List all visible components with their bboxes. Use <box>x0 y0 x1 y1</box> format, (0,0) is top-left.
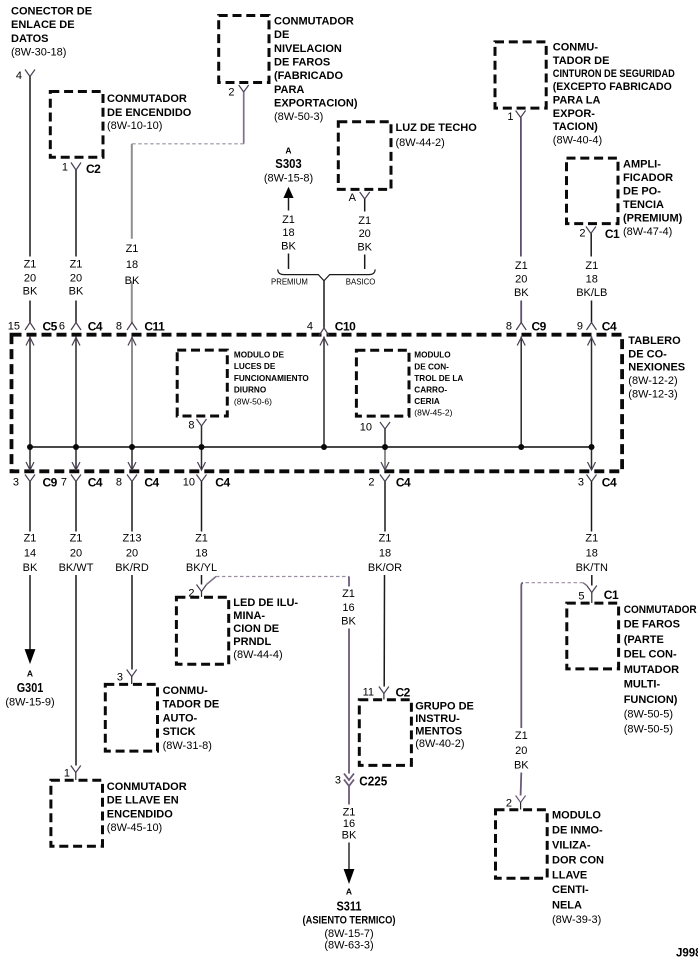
wire Z13 20 BK/RD from C4-8 to autostick switch <box>115 482 149 670</box>
node: premium/basico brace merge to C10 pin 4 <box>271 269 375 328</box>
svg-text:18: 18 <box>586 547 598 559</box>
wire: dashed branch from PRNDL led pin 2 to C225 column <box>207 577 357 774</box>
svg-text:C4: C4 <box>88 319 103 333</box>
svg-text:CARRO-: CARRO- <box>414 386 447 395</box>
svg-text:BK/LB: BK/LB <box>576 287 607 299</box>
svg-text:EXPORTACION): EXPORTACION) <box>274 98 358 110</box>
svg-text:BK: BK <box>342 830 357 842</box>
svg-text:TACION): TACION) <box>553 121 598 133</box>
svg-text:DATOS: DATOS <box>11 33 49 45</box>
svg-text:CINTURON DE SEGURIDAD: CINTURON DE SEGURIDAD <box>553 68 675 80</box>
svg-text:BK: BK <box>125 275 140 287</box>
svg-text:DE CO-: DE CO- <box>628 348 667 360</box>
svg-text:TENCIA: TENCIA <box>623 199 664 211</box>
svg-text:Z1: Z1 <box>24 533 37 545</box>
component: AMPLIFICADOR DE POTENCIA (dashed box) <box>567 158 683 238</box>
svg-text:Z1: Z1 <box>585 260 598 272</box>
svg-text:DE: DE <box>274 29 289 41</box>
svg-text:(8W-15-8): (8W-15-8) <box>264 173 313 185</box>
svg-text:4: 4 <box>307 320 313 332</box>
svg-text:DE PO-: DE PO- <box>623 186 661 198</box>
svg-text:16: 16 <box>342 602 354 614</box>
connector C4 pin 7 (bottom row) <box>61 475 103 490</box>
svg-text:ENCENDIDO: ENCENDIDO <box>107 808 173 820</box>
component: TABLERO DE CONEXIONES (junction block, large dashed box) <box>12 335 686 472</box>
svg-text:20: 20 <box>515 745 527 757</box>
pin A of dome lamp <box>349 192 370 204</box>
wire Z1 20 BK/WT from C4-7 to key-in switch <box>59 482 94 766</box>
svg-text:BASICO: BASICO <box>346 278 375 287</box>
svg-text:15: 15 <box>8 320 20 332</box>
pin 1 of seat belt switch <box>507 111 525 124</box>
svg-text:Z1: Z1 <box>343 806 356 818</box>
svg-text:(EXCEPTO FABRICADO: (EXCEPTO FABRICADO <box>553 81 672 93</box>
svg-text:2: 2 <box>228 87 234 99</box>
svg-text:CION DE: CION DE <box>233 623 279 635</box>
component: MODULO DE LUCES DE FUNCIONAMIENTO DIURNO (dashed box inside junction block) <box>177 350 309 416</box>
svg-text:1: 1 <box>62 162 68 174</box>
svg-text:Z1: Z1 <box>70 533 83 545</box>
svg-text:BK/OR: BK/OR <box>368 562 402 574</box>
svg-text:BK/RD: BK/RD <box>115 562 149 574</box>
svg-text:8: 8 <box>116 477 122 489</box>
svg-text:Z1: Z1 <box>585 533 598 545</box>
svg-text:C9: C9 <box>43 476 58 490</box>
svg-text:Z1: Z1 <box>126 243 139 255</box>
svg-text:2: 2 <box>368 477 374 489</box>
svg-text:DIURNO: DIURNO <box>234 386 267 395</box>
svg-text:CONMUTADOR: CONMUTADOR <box>624 604 697 616</box>
svg-text:LED DE ILU-: LED DE ILU- <box>233 597 298 609</box>
svg-text:CENTI-: CENTI- <box>552 884 589 896</box>
connector C1 pin 5 of headlamp switch <box>578 586 619 604</box>
svg-text:(8W-15-7): (8W-15-7) <box>324 928 373 940</box>
svg-text:Z13: Z13 <box>123 533 142 545</box>
svg-text:(PREMIUM): (PREMIUM) <box>623 212 683 224</box>
svg-text:MODULO: MODULO <box>414 351 451 360</box>
svg-text:1: 1 <box>507 111 513 123</box>
svg-text:10: 10 <box>183 477 195 489</box>
svg-text:TROL DE LA: TROL DE LA <box>414 374 463 383</box>
component: LUZ DE TECHO (dashed box) <box>338 122 477 190</box>
svg-text:BK: BK <box>23 286 38 298</box>
connector C4 pin 9 (top row) <box>577 319 617 333</box>
svg-text:A: A <box>349 192 357 204</box>
svg-text:(8W-45-10): (8W-45-10) <box>107 822 162 834</box>
component: LED DE ILUMINACION DE PRNDL (dashed box) <box>176 597 298 665</box>
svg-text:C4: C4 <box>144 476 159 490</box>
svg-text:20: 20 <box>24 272 36 284</box>
svg-text:10: 10 <box>360 422 372 434</box>
connector C2 pin 1 of ignition switch <box>62 162 101 177</box>
svg-text:C11: C11 <box>144 319 165 333</box>
svg-text:5: 5 <box>578 591 584 603</box>
wire Z1 18 BK/YL from C4-10 to PRNDL led <box>186 482 217 585</box>
svg-text:6: 6 <box>59 320 65 332</box>
svg-text:C225: C225 <box>359 774 387 789</box>
component: CONMUTADOR DE FAROS (dashed box) <box>567 603 697 736</box>
svg-text:CONMU-: CONMU- <box>163 685 209 697</box>
svg-text:(8W-45-2): (8W-45-2) <box>414 408 452 418</box>
svg-text:C1: C1 <box>604 588 619 602</box>
node: splice S311 (asiento termico) <box>303 887 396 952</box>
svg-text:DOR CON: DOR CON <box>552 854 604 866</box>
svg-text:(FABRICADO: (FABRICADO <box>274 70 343 82</box>
svg-text:DE FAROS: DE FAROS <box>624 619 680 631</box>
connector C9 pin 8 (top row) <box>506 319 547 333</box>
svg-text:MODULO: MODULO <box>552 810 601 822</box>
svg-text:20: 20 <box>126 547 138 559</box>
svg-text:PARA LA: PARA LA <box>553 95 601 107</box>
node: splice S303 <box>264 146 313 185</box>
wire Z1 14 BK from C9-3 to ground G301 <box>23 482 38 663</box>
svg-text:GRUPO DE: GRUPO DE <box>415 701 474 713</box>
svg-text:A: A <box>27 669 33 679</box>
component: MODULO DE INMOVILIZADOR CON LLAVE CENTINELA (dashed box) <box>496 810 605 927</box>
svg-text:BK: BK <box>341 616 356 628</box>
svg-text:S311: S311 <box>337 899 362 914</box>
svg-text:CONMUTADOR: CONMUTADOR <box>107 781 187 793</box>
svg-text:(8W-50-6): (8W-50-6) <box>234 397 272 407</box>
svg-text:LLAVE: LLAVE <box>552 869 587 881</box>
svg-text:18: 18 <box>586 273 598 285</box>
connector C9 pin 3 (bottom row) <box>13 475 58 490</box>
svg-text:PRNDL: PRNDL <box>233 636 271 648</box>
connector C1 pin 2 of power amplifier <box>579 227 620 242</box>
svg-text:CONECTOR DE: CONECTOR DE <box>11 5 92 17</box>
svg-text:ENLACE DE: ENLACE DE <box>11 19 75 31</box>
svg-text:2: 2 <box>506 798 512 810</box>
svg-text:PREMIUM: PREMIUM <box>271 278 308 287</box>
component: GRUPO DE INSTRUMENTOS (dashed box) <box>359 700 474 766</box>
svg-text:CONMU-: CONMU- <box>553 42 599 54</box>
svg-text:3: 3 <box>335 775 341 787</box>
component: CONMUTADOR DE CINTURON DE SEGURIDAD (dashed box) <box>495 42 675 147</box>
node: CONECTOR DE ENLACE DE DATOS label <box>11 5 92 58</box>
svg-text:(8W-31-8): (8W-31-8) <box>163 740 212 752</box>
svg-text:(8W-50-5): (8W-50-5) <box>624 724 673 736</box>
svg-text:BK/TN: BK/TN <box>576 562 608 574</box>
connector C4 pin 6 (top row) <box>59 319 103 333</box>
svg-text:G301: G301 <box>17 680 44 695</box>
pin 4 of data link connector <box>16 70 35 83</box>
in-line connector C225 pin 3 <box>335 774 387 789</box>
svg-text:20: 20 <box>515 273 527 285</box>
svg-text:18: 18 <box>126 259 138 271</box>
svg-text:DEL CON-: DEL CON- <box>624 649 677 661</box>
svg-text:18: 18 <box>195 547 207 559</box>
svg-text:Z1: Z1 <box>24 259 37 271</box>
wire Z1 18 BK from leveling switch (gray) to C11 pin 8 <box>125 92 244 323</box>
pin 10 of body control module <box>360 422 390 434</box>
svg-text:3: 3 <box>117 672 123 684</box>
connector C2 pin 11 of instrument cluster <box>363 686 411 700</box>
svg-text:C4: C4 <box>396 476 411 490</box>
svg-text:FUNCION): FUNCION) <box>624 694 678 706</box>
svg-text:MULTI-: MULTI- <box>624 679 661 691</box>
svg-text:C4: C4 <box>602 319 617 333</box>
connector C11 pin 8 (top row) <box>116 319 165 333</box>
wire Z1 20 BK (violet) from seat belt switch to C9 pin 8 <box>514 118 529 323</box>
svg-text:PARA: PARA <box>274 84 304 96</box>
svg-text:18: 18 <box>282 227 294 239</box>
wire Z1 20 BK basico branch from dome lamp <box>357 199 372 269</box>
svg-text:C4: C4 <box>88 476 103 490</box>
svg-text:NEXIONES: NEXIONES <box>628 362 685 374</box>
svg-text:DE INMO-: DE INMO- <box>552 824 603 836</box>
connector C4 pin 3 (bottom row) <box>578 475 617 490</box>
svg-text:CONMUTADOR: CONMUTADOR <box>107 93 187 105</box>
svg-text:BK: BK <box>281 240 296 252</box>
svg-text:4: 4 <box>16 70 22 82</box>
svg-text:Z1: Z1 <box>358 215 371 227</box>
connector C10 pin 4 (top row) <box>307 319 356 335</box>
wire: internal column C9-8 to bus <box>517 337 525 447</box>
svg-text:VILIZA-: VILIZA- <box>552 840 591 852</box>
svg-text:C2: C2 <box>86 162 101 176</box>
wire: internal column C4-9 through bus to C4-3 <box>588 337 596 470</box>
svg-text:A: A <box>285 146 291 156</box>
wire: internal column C5-15 to bus <box>26 337 34 470</box>
wire Z1 18 BK premium branch with arrow to S303 <box>281 188 296 269</box>
pin 3 of autostick switch <box>117 670 137 685</box>
connector C5 pin 15 (top row) <box>8 319 58 333</box>
wire Z1 18 BK/LB from power amplifier to C4 pin 9 <box>576 234 607 323</box>
svg-text:S303: S303 <box>275 156 302 171</box>
svg-text:MODULO DE: MODULO DE <box>234 351 285 360</box>
svg-text:(ASIENTO TERMICO): (ASIENTO TERMICO) <box>303 915 396 927</box>
svg-text:(8W-10-10): (8W-10-10) <box>107 120 162 132</box>
svg-text:8: 8 <box>506 320 512 332</box>
svg-text:(8W-63-3): (8W-63-3) <box>324 940 373 952</box>
svg-text:20: 20 <box>359 228 371 240</box>
pin 2 of PRNDL illumination led <box>188 585 206 600</box>
svg-text:TADOR DE: TADOR DE <box>553 55 610 67</box>
wire: internal column C4-6 through bus to C4-7 <box>72 337 80 470</box>
svg-text:Z1: Z1 <box>282 214 295 226</box>
svg-text:DE FAROS: DE FAROS <box>274 57 330 69</box>
wire Z1 18 BK/OR from C4-2 to instrument cluster <box>368 482 402 687</box>
svg-text:FICADOR: FICADOR <box>623 172 673 184</box>
svg-text:Z1: Z1 <box>342 588 355 600</box>
wire: DRL module pin 8 through bus to C4-10 <box>198 426 206 470</box>
wire: dashed branch from headlamp switch pin 5 to immobilizer <box>514 583 587 796</box>
svg-text:BK: BK <box>357 241 372 253</box>
component: CONMUTADOR DE NIVELACION DE FAROS (dashed box) <box>219 16 358 124</box>
svg-text:(8W-40-2): (8W-40-2) <box>415 738 464 750</box>
wire: internal column C11-8 (gray) through bus to C4-8 <box>128 337 136 470</box>
connector C4 pin 2 (bottom row) <box>368 475 411 490</box>
svg-text:BK: BK <box>69 286 84 298</box>
svg-text:18: 18 <box>379 547 391 559</box>
svg-text:3: 3 <box>578 477 584 489</box>
svg-text:8: 8 <box>116 320 122 332</box>
svg-text:INSTRU-: INSTRU- <box>415 713 460 725</box>
connector C4 pin 8 (bottom row) <box>116 475 160 490</box>
svg-text:MINA-: MINA- <box>233 610 265 622</box>
svg-text:(8W-39-3): (8W-39-3) <box>552 914 601 926</box>
svg-text:C5: C5 <box>43 319 58 333</box>
svg-text:AUTO-: AUTO- <box>163 712 198 724</box>
svg-text:11: 11 <box>363 687 374 699</box>
svg-text:(8W-12-3): (8W-12-3) <box>628 389 677 401</box>
svg-text:(PARTE: (PARTE <box>624 634 664 646</box>
svg-text:1: 1 <box>64 768 70 780</box>
svg-text:Z1: Z1 <box>70 259 83 271</box>
svg-text:9: 9 <box>577 320 583 332</box>
svg-text:MUTADOR: MUTADOR <box>624 664 679 676</box>
component: CONMUTADOR DE ENCENDIDO (dashed box) <box>50 92 191 158</box>
svg-text:DE LLAVE EN: DE LLAVE EN <box>107 795 179 807</box>
svg-text:20: 20 <box>70 272 82 284</box>
svg-text:DE CON-: DE CON- <box>414 362 449 371</box>
pin 1 of key-in ignition switch <box>64 766 81 781</box>
pin 2 of immobilizer module <box>506 796 526 810</box>
svg-text:Z1: Z1 <box>515 260 528 272</box>
wire: internal ground bus of junction block <box>30 446 592 448</box>
svg-text:(8W-50-5): (8W-50-5) <box>624 709 673 721</box>
svg-text:MENTOS: MENTOS <box>415 726 462 738</box>
svg-text:STICK: STICK <box>163 726 196 738</box>
svg-text:(8W-50-3): (8W-50-3) <box>274 111 323 123</box>
svg-text:3: 3 <box>13 477 19 489</box>
component: CONMUTADOR DE AUTOSTICK (dashed box) <box>105 684 219 751</box>
svg-text:BK/YL: BK/YL <box>186 562 217 574</box>
svg-text:BK/WT: BK/WT <box>59 562 94 574</box>
svg-text:C4: C4 <box>602 476 617 490</box>
svg-text:BK: BK <box>514 287 529 299</box>
svg-text:16: 16 <box>343 818 355 830</box>
svg-text:CONMUTADOR: CONMUTADOR <box>274 16 354 28</box>
svg-text:C9: C9 <box>532 319 547 333</box>
junction dots on bus <box>27 444 595 450</box>
svg-text:C2: C2 <box>396 686 411 700</box>
svg-text:14: 14 <box>24 547 36 559</box>
svg-text:TADOR DE: TADOR DE <box>163 699 220 711</box>
svg-text:Z1: Z1 <box>379 533 392 545</box>
wire Z1 16 BK from C225 to splice S311 <box>342 786 357 883</box>
svg-text:CERIA: CERIA <box>414 397 440 406</box>
svg-text:AMPLI-: AMPLI- <box>623 159 661 171</box>
svg-text:Z1: Z1 <box>195 533 208 545</box>
svg-text:LUZ DE TECHO: LUZ DE TECHO <box>396 122 478 134</box>
svg-text:(8W-44-4): (8W-44-4) <box>233 649 282 661</box>
component: MODULO DE CONTROL DE LA CARROCERIA (dashed box inside junction block) <box>356 350 463 418</box>
svg-text:C4: C4 <box>215 476 230 490</box>
pin 8 of daytime running lamp module <box>188 419 206 432</box>
svg-text:8: 8 <box>188 420 194 432</box>
svg-text:BK: BK <box>514 760 529 772</box>
svg-text:BK: BK <box>23 562 38 574</box>
svg-text:LUCES DE: LUCES DE <box>234 362 276 371</box>
wire Z1 20 BK from data link connector to C5 pin 15 <box>23 77 38 323</box>
svg-text:2: 2 <box>579 228 585 240</box>
svg-text:DE ENCENDIDO: DE ENCENDIDO <box>107 107 192 119</box>
svg-text:(8W-44-2): (8W-44-2) <box>396 137 445 149</box>
wire: BCM pin 10 through bus to C4-2 <box>381 429 389 470</box>
svg-text:20: 20 <box>70 547 82 559</box>
svg-text:TABLERO: TABLERO <box>628 335 681 347</box>
svg-text:Z1: Z1 <box>515 730 528 742</box>
connector C4 pin 10 (bottom row) <box>183 475 231 490</box>
svg-text:EXPOR-: EXPOR- <box>553 108 596 120</box>
svg-text:(8W-47-4): (8W-47-4) <box>623 226 672 238</box>
svg-text:C10: C10 <box>335 319 356 333</box>
svg-text:NIVELACION: NIVELACION <box>274 43 342 55</box>
component: CONMUTADOR DE LLAVE EN ENCENDIDO (dashed box) <box>51 780 187 846</box>
svg-text:(8W-12-2): (8W-12-2) <box>628 375 677 387</box>
svg-text:A: A <box>346 887 352 897</box>
svg-text:NELA: NELA <box>552 899 582 911</box>
wire Z1 18 BK/TN from C4-3 to headlamp switch <box>576 482 608 586</box>
svg-text:7: 7 <box>61 477 67 489</box>
svg-text:(8W-15-9): (8W-15-9) <box>5 697 54 709</box>
svg-text:(8W-40-4): (8W-40-4) <box>553 134 602 146</box>
pin 2 of headlamp leveling switch <box>228 85 248 99</box>
svg-text:C1: C1 <box>605 227 620 241</box>
ground G301 <box>5 669 54 709</box>
svg-text:FUNCIONAMIENTO: FUNCIONAMIENTO <box>234 374 310 383</box>
wire: internal column C10-4 to bus <box>320 337 328 447</box>
svg-text:(8W-30-18): (8W-30-18) <box>11 47 66 59</box>
wire Z1 20 BK from ignition switch to C4 pin 6 <box>69 170 84 323</box>
svg-text:J998W: J998W <box>676 948 698 957</box>
